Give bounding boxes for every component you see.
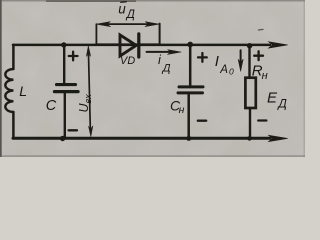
wire: left vertical branch lower segment: [12, 112, 15, 138]
svg-text:u: u: [118, 2, 126, 17]
svg-text:Д: Д: [276, 97, 287, 111]
minus sign at Rн: [258, 119, 266, 121]
minus sign at C: [69, 129, 77, 131]
scan border bottom edge: [2, 155, 305, 157]
svg-text:Д: Д: [161, 63, 171, 75]
label EД: [267, 89, 287, 110]
scan border left edge: [0, 0, 2, 157]
resistor Rн box: [245, 78, 255, 108]
node: Cн top junction: [187, 42, 193, 48]
scan speck above Rн: [258, 28, 263, 31]
wire: Rн branch lower stub: [249, 108, 251, 138]
label IА0: [215, 53, 234, 77]
node: Rн top junction: [247, 43, 252, 48]
svg-text:0: 0: [229, 67, 234, 77]
plus sign at C: [69, 52, 78, 61]
node: Cн bottom junction: [186, 136, 191, 141]
svg-text:н: н: [262, 70, 268, 82]
label Rн: [252, 63, 268, 82]
diode VD triangle: [120, 35, 136, 56]
dimension line for uД: [96, 22, 159, 44]
capacitor Cн plates: [178, 87, 203, 93]
minus sign at Cн: [198, 120, 206, 122]
wire: left vertical branch upper segment: [12, 45, 15, 69]
wire: top horizontal bus: [13, 43, 270, 46]
output terminal arrow bottom right: [269, 135, 288, 141]
scan border top edge: [0, 0, 305, 2]
svg-text:E: E: [267, 89, 278, 106]
plus sign at Cн: [198, 53, 207, 62]
current arrow iД: [147, 50, 182, 55]
voltage arrow Uвх (double headed): [86, 46, 93, 137]
svg-text:VD: VD: [120, 55, 135, 67]
paper background: [0, 0, 305, 157]
plus sign at Rн: [254, 51, 263, 60]
label uД: [118, 2, 135, 21]
svg-text:н: н: [179, 104, 185, 116]
wire: C branch lower stub: [64, 93, 66, 139]
wire: Rн branch upper stub: [248, 45, 250, 78]
label Uвх (rotated): [77, 94, 93, 113]
label iД: [158, 52, 171, 75]
wire: C branch upper stub: [63, 45, 65, 85]
wire: bottom horizontal bus: [13, 137, 270, 140]
output terminal arrow top right: [269, 42, 288, 48]
wire: Cн branch lower stub: [187, 94, 190, 139]
capacitor C plates: [55, 85, 79, 92]
svg-text:I: I: [215, 53, 219, 70]
node: capacitor C top junction: [61, 42, 66, 47]
scan border right edge: [304, 0, 306, 157]
svg-text:C: C: [46, 98, 57, 114]
svg-text:L: L: [19, 83, 27, 99]
svg-text:А: А: [219, 64, 228, 76]
current arrow IА0 (downward): [238, 50, 243, 71]
svg-text:вх: вх: [83, 94, 93, 104]
diode VD cathode bar: [137, 34, 140, 57]
svg-text:Д: Д: [125, 9, 135, 21]
inductor L: [5, 69, 13, 112]
node: Rн bottom junction: [247, 136, 252, 141]
label Cн: [170, 97, 185, 116]
node: capacitor C bottom junction: [60, 136, 65, 141]
wire: Cн branch upper stub: [189, 45, 192, 87]
